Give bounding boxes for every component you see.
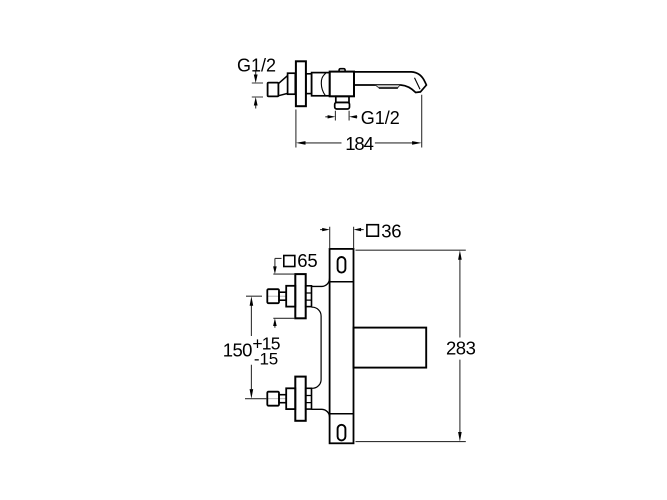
svg-text:36: 36	[381, 220, 401, 241]
svg-text:-15: -15	[254, 349, 278, 368]
svg-text:150: 150	[223, 340, 252, 361]
svg-text:283: 283	[446, 337, 476, 358]
svg-text:G1/2: G1/2	[361, 108, 400, 128]
svg-text:G1/2: G1/2	[237, 55, 276, 75]
svg-text:184: 184	[345, 133, 373, 154]
svg-text:65: 65	[297, 250, 317, 271]
